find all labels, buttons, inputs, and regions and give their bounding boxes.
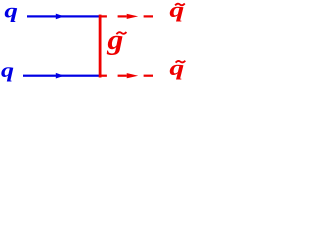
svg-text:g: g bbox=[106, 24, 123, 56]
svg-text:q: q bbox=[169, 56, 184, 81]
svg-text:q: q bbox=[4, 0, 17, 23]
svg-text:q: q bbox=[1, 59, 14, 82]
